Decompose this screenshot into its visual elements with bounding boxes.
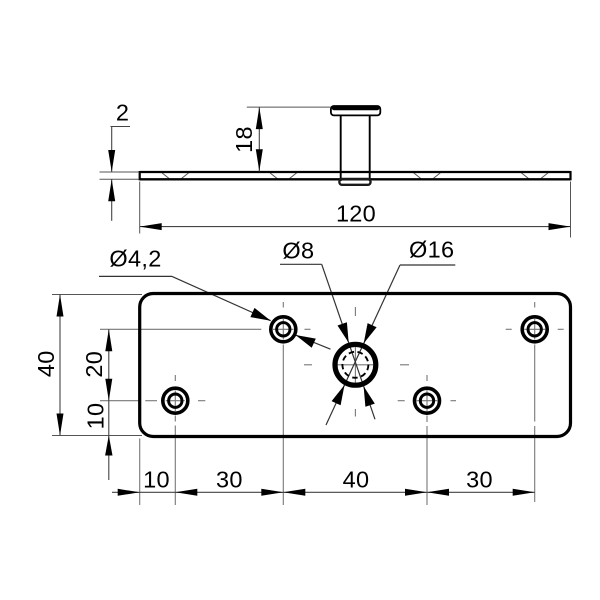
svg-text:10: 10 bbox=[83, 403, 109, 430]
svg-text:120: 120 bbox=[336, 200, 376, 226]
svg-text:20: 20 bbox=[81, 351, 107, 378]
svg-text:40: 40 bbox=[343, 467, 370, 493]
svg-text:Ø4,2: Ø4,2 bbox=[109, 246, 161, 272]
svg-text:2: 2 bbox=[116, 100, 129, 126]
svg-text:30: 30 bbox=[466, 467, 493, 493]
svg-text:30: 30 bbox=[216, 467, 243, 493]
svg-text:40: 40 bbox=[33, 350, 59, 377]
svg-text:10: 10 bbox=[143, 467, 170, 493]
svg-text:Ø8: Ø8 bbox=[282, 237, 314, 263]
svg-text:18: 18 bbox=[231, 126, 257, 153]
svg-text:Ø16: Ø16 bbox=[409, 237, 454, 263]
